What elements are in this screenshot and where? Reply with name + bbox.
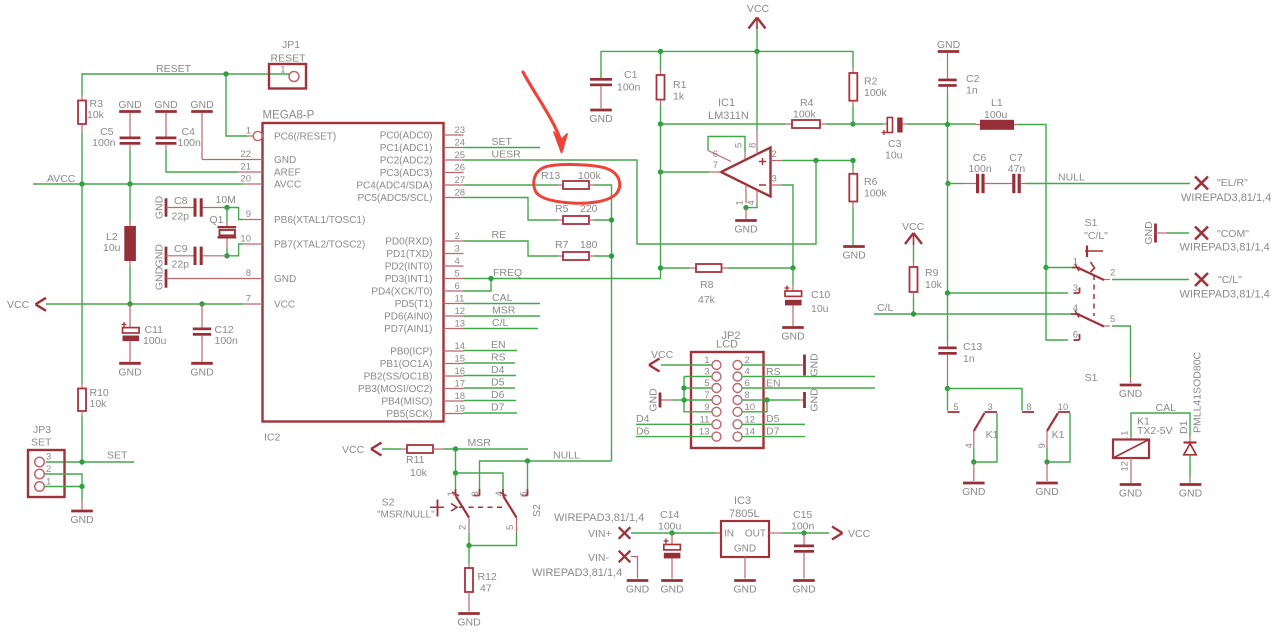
wire VIN- to gnd: [631, 557, 638, 579]
ground (C1): [589, 110, 613, 125]
svg-text:27: 27: [455, 175, 466, 186]
svg-text:GND: GND: [118, 367, 142, 379]
svg-text:R6: R6: [864, 176, 878, 188]
wire NULL out: [1026, 172, 1190, 184]
svg-text:PD3(INT1): PD3(INT1): [385, 274, 433, 285]
svg-text:3: 3: [1073, 283, 1078, 294]
resistor R9 10k: [910, 245, 943, 314]
resistor R3 10k: [78, 95, 105, 133]
svg-text:3: 3: [987, 402, 992, 413]
svg-text:GND: GND: [660, 584, 684, 596]
svg-text:RESET: RESET: [270, 53, 306, 65]
wire S2 pin6: [527, 461, 529, 489]
svg-text:2: 2: [455, 231, 460, 242]
svg-text:D7: D7: [766, 426, 780, 438]
svg-text:D7: D7: [491, 402, 505, 414]
junction pin2/R6: [850, 158, 855, 163]
svg-text:GND: GND: [70, 514, 94, 526]
svg-text:4: 4: [1073, 303, 1078, 314]
capacitor C7 47n: [985, 152, 1026, 193]
svg-text:1: 1: [280, 65, 285, 76]
connector JP1 RESET: [269, 39, 306, 89]
ground (R12): [457, 614, 481, 629]
svg-text:EN: EN: [491, 339, 506, 351]
svg-text:26: 26: [455, 163, 466, 174]
switch S1 pole A: [1072, 257, 1115, 295]
capacitor C15 100n: [791, 509, 815, 579]
svg-text:WIREPAD3,81/1,4: WIREPAD3,81/1,4: [554, 512, 644, 524]
svg-text:100k: 100k: [578, 170, 602, 182]
svg-text:PMLL41SOD80C: PMLL41SOD80C: [1192, 351, 1204, 433]
junction AVCC/R3: [79, 181, 84, 186]
wire C3 line: [853, 123, 887, 125]
svg-text:PB2(SS/OC1B): PB2(SS/OC1B): [364, 372, 433, 383]
svg-text:WIREPAD3,81/1,4: WIREPAD3,81/1,4: [1180, 289, 1270, 301]
svg-text:4: 4: [494, 491, 505, 496]
svg-text:14: 14: [455, 341, 466, 352]
svg-text:"C/L": "C/L": [1084, 230, 1108, 242]
svg-text:15: 15: [455, 354, 466, 365]
wire balance loop pin5-pin6: [708, 137, 745, 160]
svg-text:PD4(XCK/T0): PD4(XCK/T0): [371, 287, 432, 298]
wire K1a gnd: [973, 462, 975, 481]
ground (C4): [154, 99, 178, 112]
wire D6 to JP2: [636, 426, 712, 438]
wire R13 to NULL vertical: [589, 185, 612, 461]
svg-text:IC2: IC2: [264, 432, 281, 444]
svg-text:WIREPAD3,81/1,4: WIREPAD3,81/1,4: [1180, 242, 1270, 254]
svg-text:GND: GND: [734, 224, 758, 236]
diode D1 PMLL41SOD80C: [1178, 351, 1204, 454]
svg-text:19: 19: [455, 404, 466, 415]
svg-text:GND: GND: [1179, 488, 1203, 500]
connector JP3 SET: [28, 424, 65, 497]
svg-text:R13: R13: [541, 170, 560, 182]
svg-text:S1: S1: [1085, 372, 1098, 384]
capacitor C8 22p: [166, 195, 222, 223]
svg-text:IN: IN: [724, 529, 734, 540]
junction AVCC/C5: [127, 181, 132, 186]
svg-text:TX2-5V: TX2-5V: [1137, 425, 1173, 437]
ground (IC3): [733, 581, 757, 596]
svg-text:100n: 100n: [791, 521, 815, 533]
svg-text:1: 1: [735, 200, 746, 205]
svg-text:R1: R1: [673, 79, 687, 91]
svg-text:VIN+: VIN+: [588, 528, 612, 540]
svg-text:VCC: VCC: [342, 444, 365, 456]
svg-text:EN: EN: [766, 378, 781, 390]
inductor L2 10u: [103, 184, 136, 304]
capacitor C3 10u (polarized): [882, 118, 903, 162]
svg-text:D1: D1: [1178, 420, 1190, 434]
ground (R6): [842, 247, 866, 262]
svg-text:100n: 100n: [92, 137, 116, 149]
junction JP2 pin8: [764, 397, 769, 402]
svg-text:C10: C10: [811, 289, 830, 301]
svg-text:47: 47: [480, 583, 492, 595]
svg-text:RS: RS: [766, 366, 781, 378]
svg-text:VCC: VCC: [747, 3, 770, 15]
wire S1 pin1 feed: [1046, 267, 1072, 269]
wire VIN+ to IC3: [631, 532, 721, 534]
power VCC (R9): [902, 221, 925, 245]
comparator IC1 LM311N label: [708, 97, 749, 122]
switch S2 actuator: [430, 500, 503, 517]
svg-text:.1: .1: [1120, 431, 1131, 439]
switch S1 actuator: [1085, 246, 1103, 317]
wire VCC rail: [46, 303, 243, 305]
svg-text:C2: C2: [966, 73, 980, 85]
svg-text:10u: 10u: [811, 303, 829, 315]
svg-text:GND: GND: [1143, 221, 1155, 245]
svg-text:1: 1: [246, 126, 251, 137]
svg-text:1n: 1n: [966, 85, 978, 97]
svg-text:IC1: IC1: [718, 97, 735, 109]
svg-text:D6: D6: [491, 389, 505, 401]
svg-text:10u: 10u: [103, 242, 121, 254]
pin 6 balance: [708, 149, 731, 162]
junction S2 pins 1-4 feed: [453, 470, 458, 475]
wirepad C/L: [1180, 273, 1270, 301]
wire RS label: [464, 352, 516, 364]
svg-text:CAL: CAL: [492, 292, 513, 304]
svg-text:GND: GND: [733, 584, 757, 596]
svg-text:5: 5: [455, 269, 460, 280]
svg-text:JP3: JP3: [33, 424, 51, 436]
wire S1 pin5 to gnd: [1112, 326, 1131, 383]
svg-text:PB4(MISO): PB4(MISO): [381, 397, 432, 408]
svg-text:D5: D5: [491, 377, 505, 389]
svg-text:22p: 22p: [172, 259, 190, 271]
svg-text:4: 4: [964, 443, 975, 448]
junction FREQ: [488, 276, 493, 281]
wire S1 pin6 feed: [1046, 268, 1068, 341]
svg-text:3: 3: [772, 174, 777, 185]
svg-text:10k: 10k: [87, 109, 105, 121]
svg-text:R7: R7: [555, 239, 569, 251]
svg-text:5: 5: [734, 143, 745, 148]
wire XTAL1 to crystal: [226, 208, 228, 227]
wire XTAL2 node: [227, 244, 243, 256]
svg-text:13: 13: [455, 319, 466, 330]
svg-text:AVCC: AVCC: [47, 173, 76, 185]
wire D1 gnd: [1189, 455, 1191, 483]
wirepad COM: [1180, 227, 1270, 254]
svg-text:GND: GND: [842, 250, 866, 262]
svg-text:GND: GND: [190, 99, 214, 111]
wire pin7 vertical: [660, 124, 662, 268]
capacitor C6 100n: [948, 152, 992, 193]
svg-text:22p: 22p: [172, 211, 190, 223]
svg-text:VCC: VCC: [848, 528, 871, 540]
ground (C10): [781, 328, 805, 343]
svg-text:21: 21: [240, 162, 251, 173]
wire C/L label: [464, 317, 539, 329]
svg-text:IC3: IC3: [734, 495, 751, 507]
connector JP2 LCD body: [691, 330, 764, 448]
IC2 left pins: [240, 126, 365, 311]
wire MSR down: [455, 449, 457, 473]
svg-text:S1: S1: [1085, 217, 1098, 229]
svg-text:PD6(AIN0): PD6(AIN0): [384, 312, 432, 323]
wire JP2 left gnd bus: [684, 377, 712, 412]
svg-text:NULL: NULL: [1058, 172, 1085, 184]
wire S2 pin1: [455, 473, 457, 489]
svg-text:1n: 1n: [963, 353, 975, 365]
svg-text:GND: GND: [154, 244, 166, 268]
ground (pin 8): [154, 266, 244, 290]
wire RESET to pin 1: [226, 74, 247, 136]
svg-text:10: 10: [1058, 402, 1069, 413]
crystal Q1 10M: [210, 214, 237, 237]
wire R13 input: [464, 184, 564, 186]
junction R8/FREQ/vertical: [658, 265, 663, 270]
svg-text:UESR: UESR: [492, 149, 522, 161]
svg-text:100u: 100u: [984, 109, 1008, 121]
ground (C12): [190, 363, 214, 378]
svg-text:SET: SET: [107, 450, 128, 462]
op-amp IC1 triangle: [721, 148, 771, 197]
wire XTAL1 node: [216, 194, 244, 220]
svg-text:3: 3: [470, 491, 481, 496]
svg-text:GND: GND: [781, 331, 805, 343]
wire K1a loop: [974, 413, 997, 462]
junction C/L-R9: [911, 311, 916, 316]
svg-text:10u: 10u: [885, 150, 903, 162]
junction VIN+/C14: [669, 530, 674, 535]
wire EN: [742, 378, 875, 390]
svg-text:1: 1: [1073, 257, 1078, 268]
svg-text:GND: GND: [154, 266, 166, 290]
svg-text:C13: C13: [963, 341, 982, 353]
svg-text:PD7(AIN1): PD7(AIN1): [384, 324, 432, 335]
wire JP3 pin 2: [45, 474, 83, 487]
resistor R5 220: [555, 203, 598, 224]
svg-text:RE: RE: [492, 229, 507, 241]
svg-text:100u: 100u: [143, 335, 167, 347]
svg-text:GND: GND: [154, 99, 178, 111]
wire D5 label: [464, 377, 516, 389]
relay contact K1 (8-10-9): [1022, 402, 1070, 449]
svg-text:18: 18: [455, 391, 466, 402]
svg-text:1k: 1k: [673, 91, 685, 103]
svg-text:PB0(ICP): PB0(ICP): [390, 347, 432, 358]
power VCC (R11): [342, 443, 382, 457]
svg-text:WIREPAD3,81/1,4: WIREPAD3,81/1,4: [532, 567, 622, 579]
ground (IC1): [734, 221, 758, 236]
svg-text:2: 2: [458, 525, 469, 530]
ground (D1): [1179, 485, 1203, 500]
wire pin 6 to FREQ: [464, 279, 492, 292]
resistor R1 1k: [657, 51, 687, 124]
svg-text:D5: D5: [766, 413, 780, 425]
svg-text:L1: L1: [991, 97, 1003, 109]
svg-text:MSR: MSR: [492, 305, 516, 317]
svg-text:D4: D4: [636, 413, 650, 425]
svg-text:C3: C3: [888, 138, 902, 150]
wire D7 label: [464, 402, 518, 414]
junction OUT/C15: [801, 530, 806, 535]
wire IC3 gnd: [744, 557, 746, 579]
svg-text:R2: R2: [864, 76, 878, 88]
svg-text:RESET: RESET: [156, 63, 192, 75]
svg-text:R8: R8: [700, 279, 714, 291]
svg-text:28: 28: [455, 188, 466, 199]
svg-text:C9: C9: [174, 243, 188, 255]
svg-text:GND: GND: [274, 155, 296, 166]
svg-text:D6: D6: [636, 426, 650, 438]
wire C5 to AVCC: [129, 150, 131, 184]
wire FREQ: [464, 267, 661, 279]
wire NULL: [480, 450, 612, 490]
svg-text:R4: R4: [800, 97, 814, 109]
wire JP2 pin2 gnd: [742, 364, 803, 366]
ground (C14): [660, 581, 684, 596]
wire S2 pin2: [468, 518, 470, 546]
capacitor C2 1n: [938, 53, 979, 125]
svg-text:100n: 100n: [178, 137, 202, 149]
junction R4/R2/C3: [850, 121, 855, 126]
svg-text:GND: GND: [274, 274, 296, 285]
junction XTAL1: [224, 205, 229, 210]
resistor R10 10k: [78, 384, 109, 417]
svg-text:GND: GND: [190, 367, 214, 379]
wire JP2 pin8 gnd: [742, 399, 803, 401]
junction JP2 pin7: [681, 397, 686, 402]
ground (C9): [154, 244, 167, 268]
svg-text:LCD: LCD: [716, 339, 738, 351]
svg-text:6: 6: [1073, 330, 1078, 341]
svg-text:11: 11: [455, 294, 465, 305]
junction R8/C10: [790, 265, 795, 270]
capacitor C10 10u: [785, 268, 831, 326]
junction VCC/R1 top: [658, 49, 663, 54]
junction XTAL2: [224, 253, 229, 258]
svg-text:100n: 100n: [968, 163, 992, 175]
IC2 right pins: [356, 125, 465, 420]
ground (VIN-): [626, 581, 650, 596]
svg-text:2: 2: [1110, 268, 1115, 279]
svg-text:GND: GND: [937, 39, 961, 51]
svg-text:SET: SET: [31, 437, 52, 449]
wire pin2 (+) input: [771, 149, 854, 161]
junction NULL/S2 pin6: [525, 458, 530, 463]
wire SET label: [464, 136, 541, 148]
svg-text:GND: GND: [457, 617, 481, 629]
svg-text:17: 17: [455, 379, 466, 390]
power VCC (left): [7, 298, 46, 311]
wire S1 pin2 out: [1112, 279, 1189, 281]
wirepad EL/R: [1181, 177, 1271, 205]
svg-text:C/L: C/L: [492, 317, 509, 329]
svg-text:C14: C14: [660, 509, 679, 521]
svg-text:8: 8: [246, 268, 251, 279]
wire JP3 pin 1: [45, 486, 83, 488]
svg-text:OUT: OUT: [745, 529, 766, 540]
svg-text:C/L: C/L: [877, 302, 894, 314]
svg-text:PB5(SCK): PB5(SCK): [386, 409, 432, 420]
svg-text:PB3(MOSI/OC2): PB3(MOSI/OC2): [358, 384, 432, 395]
wire MSR label: [464, 305, 541, 317]
wire JP3 to gnd: [81, 487, 83, 510]
svg-text:9: 9: [1037, 443, 1048, 448]
junction MSR/S2: [453, 446, 458, 451]
svg-text:R5: R5: [555, 203, 569, 215]
svg-text:5: 5: [1110, 314, 1115, 325]
ground (JP2 pin2): [805, 353, 821, 377]
junction JP2 pin5: [681, 385, 686, 390]
microcontroller IC2 MEGA8-P body: [263, 110, 444, 444]
svg-text:GND: GND: [808, 353, 820, 377]
svg-text:6: 6: [519, 491, 530, 496]
ground (pin 22): [190, 99, 214, 112]
wire K1b gnd: [1046, 462, 1048, 481]
svg-text:GND: GND: [626, 584, 650, 596]
ground (S1): [1119, 385, 1143, 400]
ground (K1 coil): [1119, 485, 1143, 500]
junction pins1-4: [743, 205, 748, 210]
resistor R7 180: [555, 239, 598, 260]
svg-text:100k: 100k: [864, 188, 888, 200]
svg-text:100k: 100k: [864, 87, 888, 99]
svg-text:PD5(T1): PD5(T1): [395, 299, 433, 310]
wire D6 label: [464, 389, 517, 401]
svg-text:PB7(XTAL2/TOSC2): PB7(XTAL2/TOSC2): [274, 240, 365, 251]
wire D7 from JP2: [742, 426, 805, 438]
svg-text:PD0(RXD): PD0(RXD): [385, 237, 432, 248]
wire L1 to S1 pin1: [1018, 125, 1046, 268]
resistor R11 10k: [382, 445, 444, 479]
wire CAL label: [464, 292, 541, 304]
svg-text:24: 24: [455, 138, 466, 149]
svg-text:GND: GND: [648, 388, 660, 412]
wire R3 to AVCC: [81, 133, 83, 184]
wire R10 to SET: [81, 416, 83, 462]
capacitor C5 100n: [92, 113, 140, 150]
svg-text:10k: 10k: [925, 279, 943, 291]
svg-text:3: 3: [455, 244, 460, 255]
svg-text:16: 16: [455, 366, 466, 377]
wire R4 rail: [661, 123, 854, 125]
ground (C11): [118, 363, 142, 378]
svg-text:D4: D4: [491, 364, 505, 376]
wire RESET: [82, 63, 290, 95]
svg-text:180: 180: [580, 239, 598, 251]
svg-text:7: 7: [246, 294, 251, 305]
wire to IC1 gnd: [745, 208, 747, 219]
svg-text:4: 4: [455, 256, 460, 267]
power VCC (top): [747, 3, 770, 29]
svg-text:10: 10: [240, 234, 251, 245]
svg-text:5: 5: [505, 525, 516, 530]
svg-text:PC5(ADC5/SCL): PC5(ADC5/SCL): [357, 193, 432, 204]
ground (C8): [154, 195, 167, 219]
svg-text:CAL: CAL: [1156, 402, 1177, 414]
junction R1/R4 rail: [658, 121, 663, 126]
junction S1 pin3 feed: [945, 290, 950, 295]
svg-text:VIN-: VIN-: [588, 552, 610, 564]
wire R8 left: [661, 267, 697, 269]
svg-text:GND: GND: [792, 584, 816, 596]
JP2 pads and numbers: [699, 355, 755, 441]
power VCC (IC3 out): [832, 527, 871, 541]
wire VCC top rail: [601, 29, 853, 78]
voltage regulator IC3 7805L: [721, 495, 769, 557]
wire AVCC to R10: [81, 184, 83, 384]
svg-text:100k: 100k: [793, 109, 817, 121]
wire K1 coil gnd: [1130, 458, 1132, 483]
ground (K1a): [962, 483, 986, 498]
